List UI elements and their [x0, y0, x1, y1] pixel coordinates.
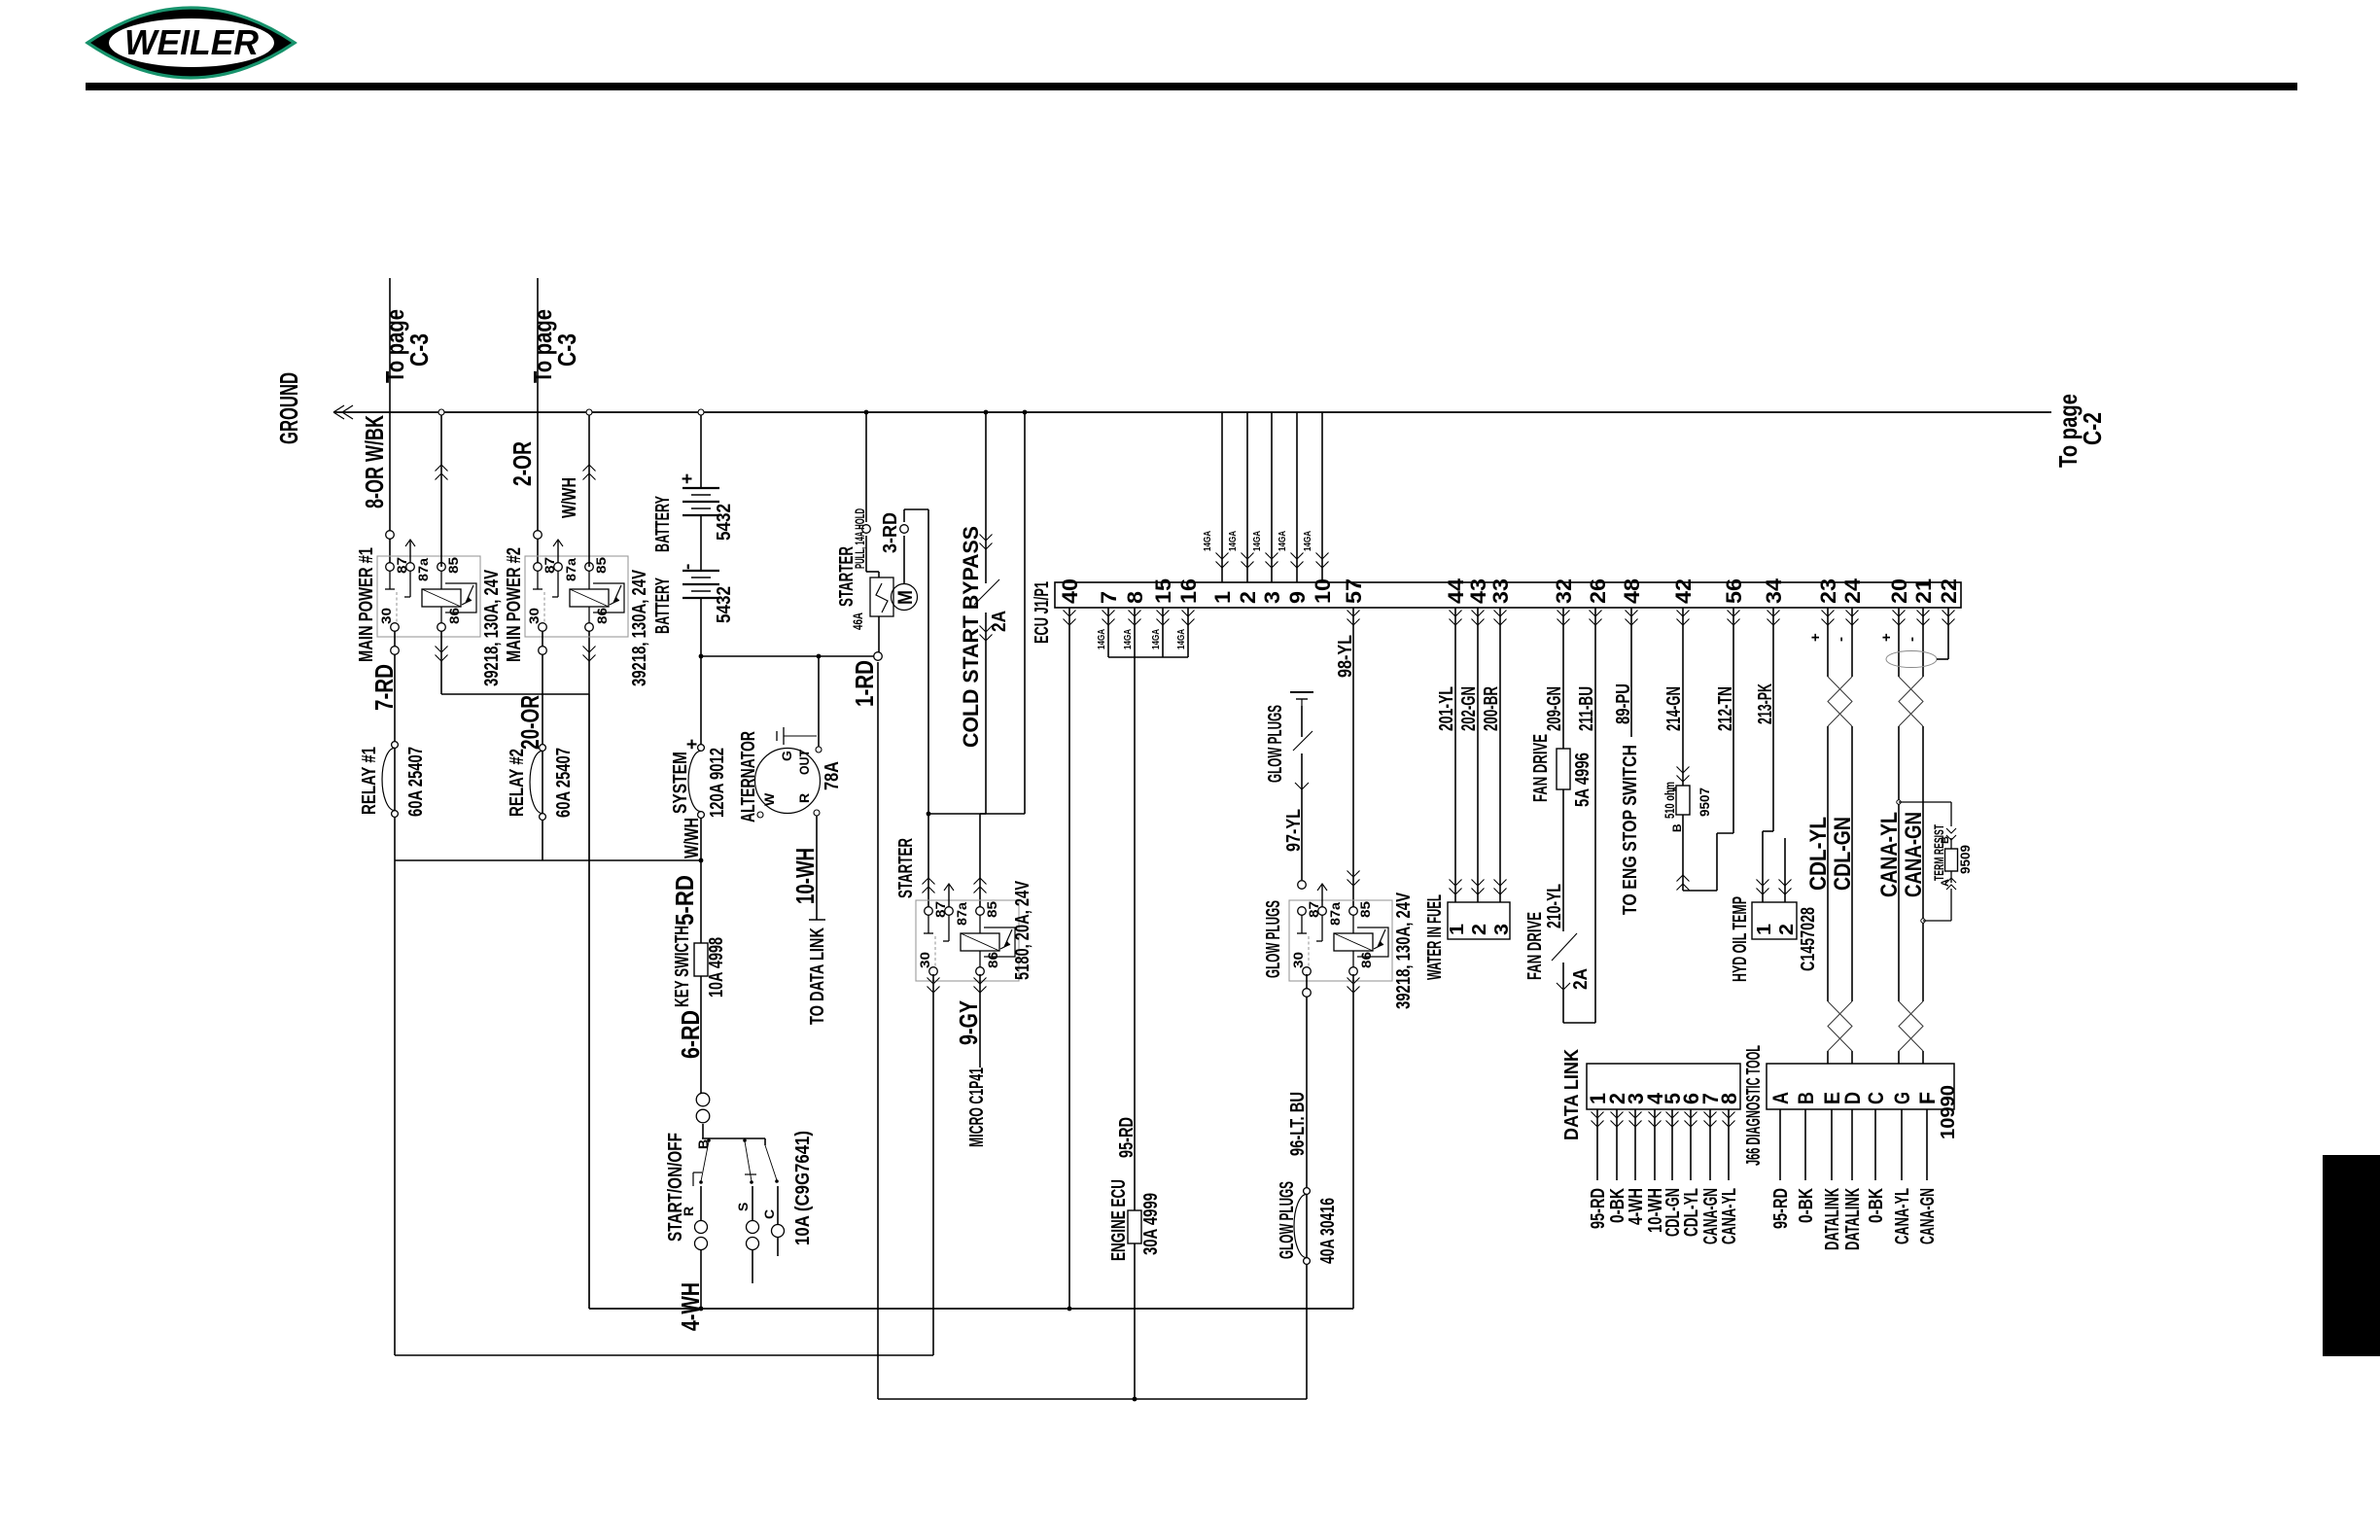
wire M top	[903, 536, 905, 584]
svg-text:8: 8	[1123, 591, 1147, 604]
svg-text:60A 25407: 60A 25407	[405, 747, 427, 817]
junction pin40 lineA	[1067, 1307, 1072, 1312]
connector on 2-OR	[534, 531, 542, 540]
fuse 10A 4998	[694, 943, 708, 976]
data link wire CANA-GN	[1709, 1109, 1711, 1180]
svg-text:10A 4998: 10A 4998	[706, 937, 727, 997]
svg-text:1: 1	[1754, 924, 1775, 935]
wire starter 30 down	[932, 974, 934, 1355]
svg-text:85: 85	[593, 557, 609, 574]
svg-text:9-GY: 9-GY	[954, 1000, 983, 1045]
alternator G terminal	[816, 747, 822, 752]
data link wire CDL-GN	[1671, 1109, 1673, 1180]
relay MAIN POWER #1	[377, 556, 480, 637]
data link wire 4-WH	[1634, 1109, 1636, 1180]
svg-text:10990: 10990	[1938, 1085, 1959, 1139]
svg-text:39218, 130A, 24V: 39218, 130A, 24V	[629, 570, 650, 686]
svg-text:2: 2	[1236, 591, 1260, 604]
svg-text:87: 87	[542, 557, 557, 574]
wire CANA-GN	[1922, 608, 1924, 677]
svg-text:HYD OIL TEMP: HYD OIL TEMP	[1730, 896, 1751, 982]
resistor 9509	[1945, 849, 1958, 871]
breaker RELAY #2 60A	[540, 745, 546, 752]
chevrons 212-TN	[1728, 611, 1740, 626]
chevrons hyd 2	[1779, 880, 1792, 895]
ECU J1/P1 bar	[1055, 582, 1961, 608]
fan drive slash	[1552, 933, 1577, 961]
fuse 30A 4999	[1128, 1210, 1141, 1243]
chevrons glow 86	[1347, 978, 1360, 994]
svg-text:5A 4996: 5A 4996	[1572, 752, 1593, 807]
svg-text:30: 30	[526, 608, 542, 624]
connector R b	[695, 1238, 708, 1250]
wire R stub	[700, 1186, 702, 1221]
svg-text:40A 30416: 40A 30416	[1317, 1198, 1339, 1264]
data link wire 10-WH	[1654, 1109, 1656, 1180]
svg-text:14GA: 14GA	[1150, 629, 1162, 649]
wire to B	[702, 1124, 704, 1138]
svg-text:14GA: 14GA	[1227, 531, 1239, 551]
junction battery out	[699, 654, 704, 659]
connector S a	[747, 1221, 759, 1234]
svg-text:TERM RESIST: TERM RESIST	[1931, 824, 1946, 881]
wire ECU pin 8 down	[1134, 608, 1136, 657]
page tab black bar	[2323, 1155, 2380, 1356]
wire relay1 to starter 30	[394, 860, 396, 1355]
svg-text:10A (C9G7641): 10A (C9G7641)	[792, 1131, 814, 1245]
svg-text:39218, 130A, 24V: 39218, 130A, 24V	[1393, 892, 1415, 1009]
svg-text:6-RD: 6-RD	[676, 1010, 705, 1059]
svg-text:211-BU: 211-BU	[1576, 686, 1597, 731]
svg-text:510 ohm: 510 ohm	[1662, 782, 1677, 819]
svg-text:87a: 87a	[415, 558, 431, 581]
svg-text:30: 30	[1290, 952, 1306, 968]
svg-text:7-RD: 7-RD	[369, 664, 399, 711]
wire 209-GN top	[1562, 608, 1564, 749]
svg-text:CDL-YL: CDL-YL	[1681, 1188, 1702, 1237]
term resist tap top	[1897, 800, 1901, 804]
svg-text:87a: 87a	[563, 558, 578, 581]
chevrons relay2 86	[583, 647, 596, 662]
svg-text:GLOW PLUGS: GLOW PLUGS	[1265, 705, 1286, 783]
wire to page C-3 #2	[537, 278, 539, 567]
breaker 40A 30416	[1304, 1188, 1311, 1195]
wire 95-RD	[1134, 657, 1136, 1399]
wire 213-PK	[1772, 608, 1774, 831]
wire ECU pin 10 to ground bus	[1321, 412, 1323, 582]
svg-text:W/WH: W/WH	[559, 477, 580, 518]
wire alt R down 10-WH	[816, 816, 818, 920]
chevrons cold start 2	[980, 626, 993, 642]
svg-text:48: 48	[1620, 578, 1644, 604]
wire ECU pin 9 to ground bus	[1296, 412, 1298, 582]
svg-text:FAN DRIVE: FAN DRIVE	[1524, 912, 1546, 980]
svg-text:14GA: 14GA	[1122, 629, 1134, 649]
svg-text:26: 26	[1586, 578, 1610, 604]
CDL twist 1	[1828, 677, 1852, 726]
svg-text:B: B	[1670, 823, 1684, 832]
svg-text:RELAY #2: RELAY #2	[507, 749, 528, 817]
svg-text:DATALINK: DATALINK	[1842, 1188, 1864, 1250]
bus junction starter	[864, 410, 869, 415]
svg-text:BATTERY: BATTERY	[652, 577, 674, 634]
svg-text:14GA: 14GA	[1096, 629, 1107, 649]
CANA twist 1	[1899, 677, 1923, 726]
wire 210-YL	[1562, 789, 1564, 931]
svg-text:CANA-YL: CANA-YL	[1876, 812, 1903, 897]
alt G symbol	[784, 735, 817, 737]
ground bus arrow	[333, 405, 353, 419]
svg-text:85: 85	[984, 901, 999, 918]
data link wire 95-RD	[1596, 1109, 1598, 1180]
CDL twist 2	[1828, 1001, 1852, 1051]
wire 3-RD route	[903, 509, 905, 522]
svg-text:C-3: C-3	[404, 333, 434, 367]
svg-text:87: 87	[932, 901, 948, 918]
connector key sw a	[696, 1093, 710, 1106]
svg-text:GLOW PLUGS: GLOW PLUGS	[1263, 900, 1284, 978]
svg-text:95-RD: 95-RD	[1588, 1188, 1609, 1229]
glow plug slash	[1293, 731, 1312, 751]
solenoid zigzag	[876, 583, 888, 612]
connector 96-LT	[1303, 989, 1312, 997]
svg-text:MICRO C1P41: MICRO C1P41	[966, 1067, 988, 1147]
J66 wire DATALINK	[1831, 1109, 1833, 1180]
svg-text:KEY SWICTH: KEY SWICTH	[672, 926, 693, 1007]
chevrons resistor bottom	[1677, 875, 1690, 891]
svg-text:TO ENG STOP SWITCH: TO ENG STOP SWITCH	[1620, 745, 1641, 915]
svg-text:3: 3	[1491, 924, 1513, 935]
wire 200-BR	[1499, 608, 1501, 902]
wire feed jog	[980, 813, 1025, 815]
svg-text:FAN DRIVE: FAN DRIVE	[1530, 734, 1552, 802]
bus junction relay1 85	[438, 409, 444, 415]
svg-text:9: 9	[1285, 591, 1310, 604]
chevrons relay1 86	[436, 647, 448, 662]
J66 wire CANA-YL	[1901, 1109, 1903, 1180]
wire pin 22 shield	[1947, 608, 1949, 659]
arrow fan	[1557, 983, 1570, 990]
svg-text:W/WH: W/WH	[682, 818, 703, 858]
J66 wire 95-RD	[1779, 1109, 1781, 1180]
svg-text:-: -	[678, 564, 698, 570]
svg-text:42: 42	[1671, 578, 1696, 604]
wire bus to starter sol	[865, 412, 867, 522]
wire fan loop	[1562, 962, 1564, 1023]
wire 4-WH	[700, 1249, 702, 1309]
data link wire CDL-YL	[1690, 1109, 1692, 1180]
svg-text:97-YL: 97-YL	[1283, 809, 1305, 852]
relay GLOW PLUGS	[1289, 900, 1392, 981]
svg-text:D: D	[1840, 1092, 1865, 1104]
svg-text:30A 4999: 30A 4999	[1140, 1193, 1162, 1255]
relay STARTER	[916, 900, 1019, 981]
svg-text:14GA: 14GA	[1202, 531, 1213, 551]
svg-text:87a: 87a	[1327, 902, 1343, 926]
svg-text:20: 20	[1887, 578, 1911, 604]
wire CDL-YL	[1827, 608, 1829, 677]
junction 4-WH lineA	[699, 1307, 704, 1312]
svg-text:CANA-YL: CANA-YL	[1892, 1188, 1913, 1244]
wire system down	[700, 818, 702, 860]
wire glow 30 down	[1306, 974, 1308, 1399]
svg-text:46A: 46A	[850, 612, 865, 630]
10-WH end tick	[809, 919, 825, 921]
cold start switch slash	[974, 579, 999, 605]
svg-text:34: 34	[1762, 577, 1786, 604]
chevrons term bottom	[1946, 878, 1956, 890]
svg-text:-: -	[1833, 637, 1849, 642]
J66 wire DATALINK	[1851, 1109, 1853, 1180]
svg-text:C-2: C-2	[2078, 412, 2107, 445]
junction alt G	[817, 654, 822, 659]
svg-text:A: A	[1768, 1092, 1793, 1104]
wire ECU pin 3 to ground bus	[1271, 412, 1273, 582]
connector 7-RD	[391, 647, 400, 655]
J66 wire 0-BK	[1874, 1109, 1876, 1180]
chevrons resistor top	[1677, 767, 1690, 783]
svg-text:G: G	[1890, 1092, 1914, 1104]
svg-text:C1457028: C1457028	[1798, 907, 1819, 971]
wire ECU pin 2 to ground bus	[1246, 412, 1248, 582]
wire bus to starter relay 85	[1024, 412, 1026, 814]
wire relay outputs tie	[395, 859, 701, 861]
chevrons 3-RD	[923, 878, 935, 893]
alternator W terminal	[757, 812, 763, 818]
svg-text:5432: 5432	[714, 586, 735, 623]
svg-text:RELAY #1: RELAY #1	[359, 747, 380, 815]
wire 89-PU	[1630, 608, 1632, 737]
wire ECU pin 40 down	[1068, 608, 1070, 1309]
svg-text:20-OR: 20-OR	[515, 695, 544, 750]
svg-text:2A: 2A	[1570, 968, 1592, 990]
svg-text:3-RD: 3-RD	[880, 512, 901, 553]
alternator circle	[755, 749, 821, 814]
svg-text:57: 57	[1342, 578, 1366, 604]
wire line A from relay 86 link	[588, 694, 590, 1309]
arrow 97-YL	[1295, 783, 1309, 789]
J66 wire CANA-GN	[1926, 1109, 1928, 1180]
svg-text:ECU J1/P1: ECU J1/P1	[1032, 581, 1053, 644]
svg-text:56: 56	[1722, 578, 1746, 604]
wire 202-GN	[1477, 608, 1479, 902]
wire starter col down	[877, 662, 879, 1399]
breaker SYSTEM 120A	[698, 745, 705, 752]
svg-text:87: 87	[394, 557, 409, 574]
svg-text:60A 25407: 60A 25407	[553, 748, 575, 818]
junction cold start tee	[927, 812, 931, 817]
wire glow plug stub	[1301, 706, 1303, 737]
wire glow 86 down	[1352, 974, 1354, 1309]
svg-text:201-YL: 201-YL	[1436, 686, 1457, 731]
svg-text:+: +	[1878, 633, 1895, 642]
svg-text:C: C	[761, 1209, 777, 1219]
svg-text:ENGINE ECU: ENGINE ECU	[1108, 1179, 1130, 1261]
header rule	[86, 83, 2297, 90]
svg-text:39218, 130A, 24V: 39218, 130A, 24V	[481, 570, 503, 686]
data link wire 0-BK	[1616, 1109, 1618, 1180]
svg-text:WEILER: WEILER	[124, 22, 259, 62]
svg-text:GROUND: GROUND	[274, 372, 303, 444]
svg-text:14GA: 14GA	[1277, 531, 1288, 551]
bus junction feed	[1023, 410, 1028, 415]
wire cold start top	[985, 412, 987, 583]
wire 97-YL	[1301, 753, 1303, 880]
alternator R terminal	[814, 810, 820, 816]
svg-text:M: M	[894, 590, 917, 605]
glow plug element	[1290, 691, 1313, 693]
svg-text:BATTERY: BATTERY	[652, 496, 674, 552]
svg-text:30: 30	[378, 608, 394, 624]
wire bus to battery	[700, 412, 702, 488]
svg-text:2-OR: 2-OR	[507, 441, 537, 486]
svg-text:CDL-YL: CDL-YL	[1805, 817, 1832, 891]
chevrons hyd 1	[1757, 880, 1769, 895]
svg-text:CANA-GN: CANA-GN	[1901, 812, 1927, 897]
chevrons relay2 85	[583, 465, 596, 480]
svg-text:87a: 87a	[954, 902, 969, 926]
connector key sw b	[696, 1109, 710, 1123]
chevrons starter 30	[927, 978, 940, 994]
svg-text:-: -	[1904, 637, 1920, 642]
ground bus	[333, 411, 2051, 413]
fuse 5A 4996	[1557, 749, 1570, 789]
svg-text:+: +	[678, 473, 698, 484]
wire relay1 85 to bus	[440, 412, 442, 567]
svg-text:0-BK: 0-BK	[1866, 1188, 1887, 1223]
relay MAIN POWER #2	[525, 556, 628, 637]
svg-text:CANA-GN: CANA-GN	[1917, 1188, 1939, 1244]
wire S stub	[752, 1186, 753, 1221]
svg-text:22: 22	[1937, 578, 1961, 604]
svg-text:ALTERNATOR: ALTERNATOR	[738, 731, 759, 822]
svg-text:86: 86	[594, 608, 610, 624]
svg-text:CDL-GN: CDL-GN	[1830, 817, 1856, 891]
chevrons cold start	[980, 535, 993, 550]
wire CDL-GN	[1851, 608, 1853, 677]
svg-text:C: C	[1864, 1092, 1888, 1104]
wire battery link	[700, 515, 702, 571]
svg-text:G: G	[779, 751, 794, 761]
junction 95RD lineC	[1133, 1397, 1137, 1402]
battery 2	[682, 570, 719, 572]
connector starter sol	[862, 525, 871, 534]
svg-text:14GA: 14GA	[1302, 531, 1313, 551]
term resist tap bottom	[1921, 919, 1925, 923]
svg-text:200-BR: 200-BR	[1481, 686, 1502, 731]
connector C	[772, 1225, 785, 1238]
svg-text:+: +	[1807, 633, 1824, 642]
wire C below	[777, 1237, 779, 1256]
chevrons relay1 85	[436, 465, 448, 480]
J66 wire 0-BK	[1804, 1109, 1806, 1180]
wire cold start bottom	[985, 612, 987, 814]
connector 3-RD	[900, 525, 909, 534]
svg-text:1-RD: 1-RD	[850, 660, 879, 707]
svg-text:1: 1	[1210, 591, 1235, 604]
key blade R	[701, 1141, 709, 1181]
data link wire CANA-YL	[1728, 1109, 1730, 1180]
svg-text:85: 85	[445, 557, 461, 574]
svg-text:86: 86	[446, 608, 462, 624]
chevrons 98-YL top	[1347, 611, 1360, 626]
svg-text:214-GN: 214-GN	[1663, 686, 1685, 731]
svg-text:95-RD: 95-RD	[1770, 1188, 1792, 1229]
svg-text:212-TN: 212-TN	[1715, 686, 1736, 731]
key R bracket	[692, 1172, 694, 1186]
wire relay1 30 down	[394, 631, 396, 860]
wire C stub	[777, 1186, 779, 1225]
svg-text:8: 8	[1717, 1093, 1741, 1104]
wire cold start to 3-RD	[928, 813, 986, 815]
svg-text:PULL, 14A HOLD: PULL, 14A HOLD	[852, 508, 867, 569]
svg-text:87: 87	[1306, 901, 1321, 918]
svg-text:COLD START BYPASS: COLD START BYPASS	[959, 526, 983, 748]
svg-text:MAIN POWER #2: MAIN POWER #2	[504, 547, 525, 662]
wire CANA-YL	[1898, 608, 1900, 677]
svg-text:OUT: OUT	[796, 750, 812, 775]
starter solenoid box	[870, 577, 893, 616]
svg-text:96-LT. BU: 96-LT. BU	[1287, 1092, 1309, 1156]
svg-text:5-RD: 5-RD	[670, 875, 699, 926]
key blade S	[745, 1141, 752, 1181]
junction W/WH rail	[699, 858, 704, 863]
svg-text:2: 2	[1469, 924, 1490, 935]
svg-text:120A 9012: 120A 9012	[707, 748, 728, 818]
svg-text:85: 85	[1357, 901, 1373, 918]
svg-text:1: 1	[1447, 924, 1468, 935]
wire key switch col	[700, 860, 702, 1095]
connector S b	[747, 1238, 759, 1250]
svg-text:21: 21	[1911, 578, 1936, 604]
svg-text:98-YL: 98-YL	[1335, 635, 1356, 678]
wire relay1 86 link	[440, 631, 442, 694]
svg-text:CANA-YL: CANA-YL	[1719, 1188, 1740, 1244]
svg-text:9507: 9507	[1697, 787, 1712, 817]
svg-text:W: W	[761, 792, 777, 806]
wire battery down	[700, 598, 702, 745]
svg-text:15: 15	[1151, 578, 1175, 604]
wire starter 86 down 9-GY	[979, 974, 981, 1067]
svg-text:R: R	[796, 793, 812, 803]
wire ECU pin 16 down	[1187, 608, 1189, 657]
svg-text:40: 40	[1058, 578, 1082, 604]
svg-text:2: 2	[1776, 924, 1798, 935]
connector on 8-OR	[386, 531, 395, 540]
svg-text:44: 44	[1444, 577, 1468, 604]
J66 box	[1767, 1064, 1954, 1109]
breaker RELAY #1 60A	[392, 742, 399, 749]
wire line C	[878, 1398, 1307, 1400]
motor M circle	[892, 584, 918, 611]
wire sol in	[865, 536, 867, 572]
svg-text:43: 43	[1466, 578, 1490, 604]
wire 1-RD feed	[701, 655, 874, 657]
svg-text:DATA LINK: DATA LINK	[1561, 1049, 1583, 1140]
key blade C	[765, 1145, 777, 1180]
svg-text:WATER IN FUEL: WATER IN FUEL	[1424, 894, 1446, 980]
svg-text:95-RD: 95-RD	[1116, 1117, 1137, 1158]
bus junction cold start	[984, 410, 989, 415]
resistor 9507	[1676, 786, 1690, 815]
svg-text:7: 7	[1097, 591, 1121, 604]
wire 212-TN route	[1683, 890, 1717, 892]
wire alt G up	[818, 656, 820, 747]
svg-text:24: 24	[1840, 577, 1865, 604]
chevrons 98-YL bottom	[1347, 871, 1360, 887]
hyd oil temp box	[1752, 902, 1797, 939]
chevrons 85 feed	[974, 878, 987, 893]
